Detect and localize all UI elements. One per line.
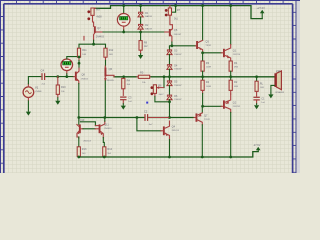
wire R14 to bottom rail	[103, 155, 105, 158]
svg-text:1N4007: 1N4007	[174, 85, 182, 87]
wire Q5e to Q3 base	[172, 45, 196, 47]
svg-text:-27.6V: -27.6V	[253, 144, 261, 147]
wire D5-D6 lead	[169, 85, 171, 94]
pot R7 body	[168, 8, 171, 15]
resistor R14	[103, 147, 106, 157]
svg-text:R7: R7	[177, 8, 181, 12]
transistor Q6 bar	[105, 68, 107, 77]
junction midrail-R1R2	[229, 75, 232, 78]
wire D1-D2 lead	[140, 17, 142, 24]
svg-text:Q7: Q7	[97, 26, 101, 30]
ammeter AM2 bottom pin	[66, 71, 68, 74]
junction tail-Q8	[77, 116, 80, 119]
sheet background grid	[0, 0, 300, 173]
transistor Q11 emitter arrow	[101, 133, 104, 136]
svg-text:R8: R8	[144, 40, 148, 44]
wire Q10 collector stub	[78, 118, 80, 125]
resistor RL	[255, 81, 258, 91]
wire D3-D4 lead	[169, 54, 171, 64]
wire C4 to Q8 base	[46, 76, 74, 78]
resistor R4a bottom lead	[122, 89, 124, 96]
pot R9 body	[91, 8, 94, 15]
svg-text:10R: 10R	[109, 54, 113, 56]
wire Q10e to R13	[78, 137, 80, 147]
svg-text:1N4007: 1N4007	[174, 99, 182, 101]
junction rail-Q3	[201, 4, 204, 7]
wire Q7L emitter up	[201, 106, 203, 112]
transistor Q11 bar	[99, 124, 101, 133]
svg-text:BA159: BA159	[145, 27, 152, 30]
diode D3	[167, 49, 172, 54]
transistor Q8 collector lead	[77, 68, 79, 73]
junction input-R10	[56, 75, 59, 78]
svg-text:2N3055: 2N3055	[107, 80, 115, 82]
junction D6-R6 bottom	[168, 100, 171, 103]
junction bus-D2-R8	[139, 31, 142, 34]
capacitor C3 bottom lead	[122, 101, 124, 104]
transistor Q7L emitter lead	[197, 113, 202, 115]
svg-text:R12: R12	[109, 49, 114, 52]
wire V1 to C4	[28, 77, 40, 84]
wire R2 bottom lead	[230, 90, 232, 94]
wire Q5 emitter stub	[171, 42, 173, 46]
wire R7 wiper drop	[172, 6, 176, 13]
ground under C1	[254, 103, 259, 109]
wire R12 to Q6 collector	[105, 60, 107, 66]
wire R1 bottom lead	[230, 71, 232, 77]
transistor Q3 collector lead	[198, 40, 203, 42]
resistor R5 right lead	[150, 76, 151, 78]
wire R13 to bottom rail	[78, 155, 80, 158]
resistor R4b bottom lead	[202, 90, 204, 93]
svg-text:5k1: 5k1	[174, 18, 179, 21]
svg-text:100R: 100R	[206, 86, 212, 88]
wire Q8 emitter to tail	[78, 84, 80, 118]
transistor Q4 base stub	[161, 130, 163, 132]
wire speaker bottom terminal	[271, 85, 274, 92]
svg-text:Q2: Q2	[233, 100, 237, 104]
junction tail-Q4base	[136, 116, 139, 119]
wire Q3 collector drop	[202, 6, 204, 41]
resistor R13	[77, 147, 80, 157]
transistor Q7L emitter arrow	[198, 114, 202, 117]
resistor R4a	[122, 78, 125, 88]
wire R3 bottom lead	[202, 71, 204, 77]
ammeter AM2	[61, 59, 73, 71]
wire D3 top tie	[170, 46, 172, 48]
node origin marker	[146, 102, 148, 104]
resistor R10 bottom lead	[57, 94, 59, 97]
capacitor C1	[253, 97, 259, 101]
resistor R10 top lead	[57, 77, 59, 85]
transistor Q1 emitter arrow	[227, 55, 231, 59]
wire R4b to Q7L node	[202, 93, 204, 106]
wire R2 top lead	[230, 77, 232, 80]
svg-text:Q6: Q6	[109, 67, 113, 71]
diode D5	[167, 80, 172, 85]
transistor Q6 base lead ext	[106, 75, 114, 77]
junction midrail-R6wiper	[163, 75, 166, 78]
svg-text:R4: R4	[206, 80, 210, 84]
transistor Q3 base lead	[194, 45, 197, 47]
wire bias bus	[103, 31, 165, 33]
transistor Q11 base stub	[95, 128, 98, 130]
source V1 circle	[23, 87, 34, 98]
svg-text:R2: R2	[234, 80, 238, 84]
wire -V bottom rail	[79, 152, 258, 157]
svg-text:VSINE: VSINE	[35, 91, 42, 93]
svg-text:Q5: Q5	[174, 28, 178, 32]
speaker LS1 bar	[274, 73, 276, 87]
svg-text:2N3792: 2N3792	[233, 106, 241, 108]
transistor Q6 emitter arrow	[104, 78, 107, 81]
junction bus-meter1	[122, 31, 125, 34]
wire meter1 top stub	[123, 6, 125, 14]
wire R8 top lead	[140, 32, 142, 41]
transistor Q3 emitter arrow	[199, 47, 202, 50]
resistor R12 bottom lead	[105, 57, 107, 60]
wire D6 bottom to tail	[169, 100, 171, 118]
pot R6 terminal dots	[151, 86, 154, 95]
pot R9 bottom lead	[93, 15, 94, 26]
wire D4-D5 lead	[169, 69, 171, 80]
wire R6 bottom to column	[155, 97, 170, 102]
wire Q4 emitter to bottom rail	[169, 140, 171, 157]
transistor Q6 emitter lead	[104, 77, 106, 81]
power -27.6V arrow	[256, 147, 261, 152]
svg-text:Q10: Q10	[80, 119, 85, 122]
transistor Q7 base lead	[96, 31, 103, 33]
svg-text:10R: 10R	[260, 87, 264, 89]
transistor Q6 base stub	[105, 74, 107, 76]
wire tail left	[79, 117, 144, 119]
transistor Q7 bar	[94, 26, 96, 33]
junction rail-Q1	[229, 4, 232, 7]
capacitor C3	[120, 97, 126, 101]
ammeter AM1 bottom pin	[123, 26, 125, 30]
transistor Q5 bar	[169, 29, 171, 36]
junction midrail-R3R4	[201, 75, 204, 78]
svg-text:R11: R11	[82, 49, 87, 52]
resistor R2	[229, 80, 232, 90]
wire Q7 emitter to mirror rail	[93, 40, 95, 44]
ground under C3	[121, 103, 126, 109]
transistor Q1 base lead	[221, 52, 223, 54]
wire tail right	[149, 117, 193, 119]
svg-text:2N1613: 2N1613	[172, 130, 180, 132]
border ruler ticks left	[1, 17, 4, 164]
svg-text:C3: C3	[128, 95, 132, 99]
wire Q11e to R14	[103, 138, 104, 147]
junction rail-R7	[174, 4, 177, 7]
svg-text:R14: R14	[107, 148, 112, 151]
resistor R5 left lead	[137, 76, 138, 78]
transistor Q1 bar	[223, 49, 225, 57]
junction brail-Q4	[168, 156, 171, 159]
svg-text:SPEAKER: SPEAKER	[275, 91, 285, 94]
transistor Q10 collector diag	[77, 125, 79, 127]
junction rail-D1	[139, 4, 142, 7]
wire Q7L collector to bottom rail	[201, 125, 203, 157]
border ruler ticks right	[293, 12, 296, 172]
transistor Q7 emitter lead	[94, 33, 95, 40]
svg-text:2N1613: 2N1613	[104, 128, 112, 130]
resistor R4b	[201, 80, 204, 90]
wire meter2 bottom stub	[66, 74, 68, 77]
transistor Q10 emitter arrow	[77, 132, 79, 135]
svg-text:2N3055: 2N3055	[81, 78, 89, 80]
pot R7 terminal dots	[165, 9, 168, 16]
pot R9 terminal dots	[87, 10, 90, 20]
wire R6 wiper drop	[163, 77, 165, 88]
transistor Q6 collector lead	[104, 66, 106, 68]
transistor Q3 bar	[196, 41, 198, 49]
transistor Q1 emitter lead	[225, 55, 231, 61]
stub near R11 top	[83, 36, 85, 40]
wire Q10 c-b arc	[80, 122, 95, 126]
transistor Q11 emitter lead	[100, 131, 103, 137]
transistor Q5 base lead	[165, 31, 169, 33]
capacitor C1 bottom lead	[256, 101, 258, 103]
source V1 sine	[25, 91, 31, 94]
source V1 top lead	[27, 84, 29, 87]
junction input-meter2	[65, 75, 68, 78]
transistor Q10 bar	[79, 124, 81, 133]
border frame inner thick lines	[4, 4, 293, 173]
junction R11 lower	[78, 62, 81, 65]
resistor RL bottom lead	[256, 91, 258, 96]
svg-text:RL: RL	[260, 81, 264, 85]
svg-text:Q8: Q8	[81, 73, 85, 77]
wire mid rail right	[151, 76, 274, 78]
wire D3 lead	[169, 47, 171, 50]
svg-text:100R: 100R	[206, 67, 212, 69]
svg-text:10R: 10R	[82, 54, 86, 56]
transistor Q1 collector lead	[225, 45, 231, 51]
pot R7 bottom lead	[170, 15, 173, 29]
transistor Q11 collector lead	[100, 121, 105, 126]
transistor Q10 emitter lead	[77, 131, 79, 138]
source V1 bottom lead	[27, 98, 29, 101]
svg-text:+27.6V: +27.6V	[257, 6, 266, 10]
wire tail to Q4 base	[137, 118, 161, 131]
transistor Q10 base stub	[81, 128, 83, 130]
wire meter1 bottom stub	[123, 30, 125, 32]
resistor R8 bottom lead	[140, 50, 142, 53]
pot R6 bottom lead	[154, 93, 156, 96]
svg-text:4k08: 4k08	[96, 15, 102, 18]
capacitor C2 right lead	[149, 117, 169, 119]
transistor Q4 emitter arrow	[165, 132, 169, 136]
capacitor C2	[144, 114, 148, 121]
resistor R5	[138, 75, 149, 78]
junction brail-Q2	[229, 156, 232, 159]
diode D1	[138, 12, 143, 17]
svg-text:0k47: 0k47	[159, 94, 165, 96]
svg-text:1N4007: 1N4007	[174, 54, 182, 56]
transistor Q2 emitter arrow	[225, 101, 229, 104]
diode D2	[138, 24, 143, 29]
svg-text:Q1: Q1	[233, 49, 237, 53]
wire R11-R12 top link	[79, 44, 106, 48]
diode D2 bottom pin	[140, 29, 142, 31]
wire R4a top lead	[123, 77, 125, 79]
svg-text:2N6107: 2N6107	[174, 34, 182, 36]
wire mid rail left	[114, 76, 137, 78]
transistor Q11 c-b stub	[95, 125, 98, 127]
transistor Q7L base lead	[193, 117, 196, 119]
transistor Q2 emitter lead	[225, 94, 231, 102]
svg-text:R1: R1	[234, 61, 238, 65]
resistor R10	[56, 85, 59, 94]
svg-text:C1: C1	[261, 96, 265, 100]
transistor Q8 emitter arrow	[76, 78, 79, 81]
wire meter2 top stub	[67, 57, 79, 59]
ground under R8	[138, 53, 143, 59]
junction rail-meter1	[122, 4, 125, 7]
wire Q11 collector to tail	[104, 118, 106, 122]
svg-text:C4: C4	[41, 69, 45, 73]
svg-text:R13: R13	[82, 148, 87, 151]
wire +V top rail	[94, 6, 262, 19]
pot R9 wiper lead	[94, 7, 96, 9]
ammeter AM1	[117, 13, 130, 26]
svg-text:Q4: Q4	[172, 125, 176, 129]
resistor R12	[104, 48, 107, 57]
diode D4	[167, 64, 172, 69]
resistor R1	[229, 61, 232, 71]
junction Q2b node	[201, 105, 204, 108]
svg-text:R6: R6	[158, 83, 162, 87]
resistor R11 bottom lead	[78, 57, 80, 60]
transistor Q8 base stub	[74, 76, 75, 78]
junction midrail-RL	[255, 75, 258, 78]
wire D1 top lead	[140, 6, 142, 12]
transistor Q4 emitter lead	[165, 133, 170, 139]
transistor Q2 bar	[223, 100, 225, 108]
resistor R3	[201, 61, 204, 71]
wire Q6 emitter to tail	[104, 81, 106, 118]
svg-text:R9: R9	[96, 7, 100, 11]
capacitor C4	[41, 73, 45, 80]
svg-text:BA159: BA159	[145, 15, 152, 18]
ground under V1	[26, 100, 31, 115]
transistor Q8 emitter lead	[77, 79, 79, 84]
svg-text:C2: C2	[144, 110, 148, 114]
transistor Q5 emitter lead	[171, 35, 172, 42]
svg-text:R5: R5	[140, 71, 144, 75]
wire RL top lead	[256, 77, 258, 81]
transistor Q5 collector lead	[171, 29, 173, 31]
ground under R10	[55, 97, 60, 105]
svg-text:TIP42: TIP42	[204, 119, 211, 121]
svg-text:R3: R3	[206, 61, 210, 65]
wire R11 to Q8 collector	[78, 60, 80, 68]
wire mirror base tie	[83, 128, 95, 130]
transistor Q8 bar	[75, 72, 77, 81]
resistor R11	[77, 48, 80, 57]
svg-text:2N1613: 2N1613	[83, 141, 91, 143]
svg-text:V1: V1	[35, 85, 39, 89]
sheet outside-right strip	[297, 0, 300, 173]
speaker LS1 cone	[276, 71, 281, 90]
wire Q3e to Q1 base	[203, 52, 222, 54]
junction brail-Q7L	[201, 156, 204, 159]
svg-text:2N3716: 2N3716	[233, 54, 241, 56]
border frame outer thin lines	[0, 0, 300, 173]
svg-text:1N4007: 1N4007	[174, 69, 182, 71]
svg-text:Q3: Q3	[205, 40, 209, 44]
pot R7 top lead	[169, 6, 171, 8]
junction brail-R14	[103, 156, 106, 159]
junction Q3e-Q1b-R3	[201, 51, 204, 54]
transistor Q2 base lead	[221, 105, 223, 107]
svg-text:2N4403: 2N4403	[96, 37, 105, 39]
junction Q7-mirror	[92, 43, 95, 46]
border ruler ticks top	[17, 1, 284, 4]
svg-text:R4: R4	[127, 78, 131, 82]
junction R11-meter2	[78, 56, 81, 59]
transistor Q4 collector lead	[165, 121, 170, 128]
transistor Q4 bar	[163, 126, 165, 135]
junction column-tail	[168, 116, 171, 119]
diode D6	[167, 95, 172, 100]
wire R3 top lead	[202, 53, 204, 61]
transistor Q2 collector lead	[225, 107, 231, 113]
wire to Q2 base	[203, 105, 222, 107]
transistor Q7L collector lead	[197, 120, 202, 125]
wire Q1 collector drop	[230, 6, 232, 45]
wire R4b top lead	[202, 77, 204, 80]
pot R6 body	[153, 85, 156, 94]
junction midrail-R4a	[122, 75, 125, 78]
junction tail-Q6Q11	[103, 116, 106, 119]
svg-text:LS1: LS1	[276, 70, 281, 73]
svg-text:TIP41: TIP41	[205, 45, 212, 47]
svg-text:R10: R10	[61, 86, 66, 89]
wire Q2 collector to bottom rail	[230, 112, 232, 157]
svg-text:Q7: Q7	[204, 113, 208, 117]
resistor R8	[139, 41, 142, 51]
pot R6 wiper arrow	[157, 87, 164, 89]
svg-text:Q11: Q11	[104, 124, 109, 127]
junction Q5e-Q3b-D3	[171, 44, 174, 47]
power +27.6V arrow	[260, 10, 265, 19]
transistor Q3 emitter lead	[198, 47, 203, 52]
junction column-midrail	[168, 75, 171, 78]
ground under speaker	[268, 93, 273, 99]
wire D2 bottom lead	[140, 30, 142, 33]
junction brail-R13	[77, 156, 80, 159]
transistor Q7L bar	[196, 113, 198, 121]
